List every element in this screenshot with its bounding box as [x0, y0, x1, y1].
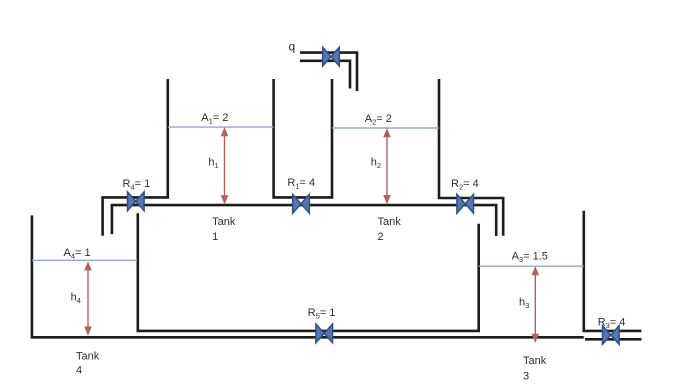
node h4 arrowhead down — [84, 327, 92, 336]
node h3 arrowhead up — [532, 266, 540, 275]
wire tank 1 right wall, pipe between tanks, tank 2 left wall — [274, 79, 332, 197]
wire tank 2 right wall, upper pipe line right, right outer down-pipe — [439, 79, 503, 236]
valve Q on feed pipe — [323, 47, 340, 66]
node h2 arrowhead down — [383, 195, 391, 204]
svg-text:A2= 2: A2= 2 — [365, 113, 392, 127]
svg-text:2: 2 — [378, 231, 384, 243]
svg-text:h4: h4 — [71, 291, 81, 305]
svg-text:A1= 2: A1= 2 — [201, 112, 228, 126]
valve R2 — [457, 194, 474, 213]
valve R5 — [316, 324, 333, 343]
svg-text:h2: h2 — [371, 157, 381, 171]
svg-text:Tank: Tank — [523, 355, 547, 367]
svg-text:R3= 4: R3= 4 — [598, 316, 626, 330]
svg-text:Tank: Tank — [378, 216, 402, 228]
wire middle box: left wall, bottom pipe, right wall (tank 3 left wall) — [138, 213, 479, 331]
wire feed pipe bottom line with right elbow down — [300, 61, 350, 89]
wire lower outlet pipe line right — [585, 338, 642, 341]
valve R4 — [128, 192, 145, 211]
node h2 arrowhead up — [383, 128, 391, 137]
valve R3 — [603, 326, 620, 345]
wire h2 dimension arrow line — [386, 134, 388, 198]
svg-text:h3: h3 — [519, 297, 529, 311]
node tank 1 water level line — [168, 126, 274, 128]
wire feed pipe top line with right elbow down — [300, 53, 357, 91]
wire h4 dimension arrow line — [87, 268, 89, 330]
node tank 3 water level line — [479, 265, 584, 267]
svg-text:4: 4 — [76, 365, 82, 377]
svg-text:1: 1 — [212, 231, 218, 243]
svg-text:R1= 4: R1= 4 — [287, 177, 315, 191]
svg-text:3: 3 — [523, 371, 529, 383]
svg-text:A4= 1: A4= 1 — [64, 247, 91, 260]
wire h3 dimension arrow line — [534, 273, 536, 338]
wire tank 3 right wall and upper outlet pipe line — [584, 211, 642, 331]
valve R1 — [293, 194, 310, 213]
svg-text:h1: h1 — [208, 157, 218, 171]
node h3 arrowhead down — [532, 334, 540, 343]
svg-text:Tank: Tank — [76, 350, 100, 362]
node h1 arrowhead up — [221, 127, 229, 136]
node h1 arrowhead down — [221, 195, 229, 204]
svg-text:Tank: Tank — [212, 216, 236, 228]
wire long lower pipe line under tanks 1 and 2 with both elbows down — [112, 205, 496, 236]
node h4 arrowhead up — [84, 261, 92, 270]
wire h1 dimension arrow line — [224, 134, 226, 199]
node tank 2 water level line — [332, 127, 439, 129]
wire left outer down-pipe, upper pipe line left, tank 1 left wall — [103, 79, 168, 236]
wire tank 4 left wall and bottom floor line — [32, 215, 584, 337]
node tank 4 water level line — [32, 259, 137, 261]
svg-text:q: q — [289, 40, 296, 54]
svg-text:R4= 1: R4= 1 — [123, 178, 151, 192]
svg-text:R2= 4: R2= 4 — [451, 178, 479, 192]
svg-text:R5= 1: R5= 1 — [308, 307, 336, 321]
svg-text:A3= 1.5: A3= 1.5 — [512, 251, 548, 265]
